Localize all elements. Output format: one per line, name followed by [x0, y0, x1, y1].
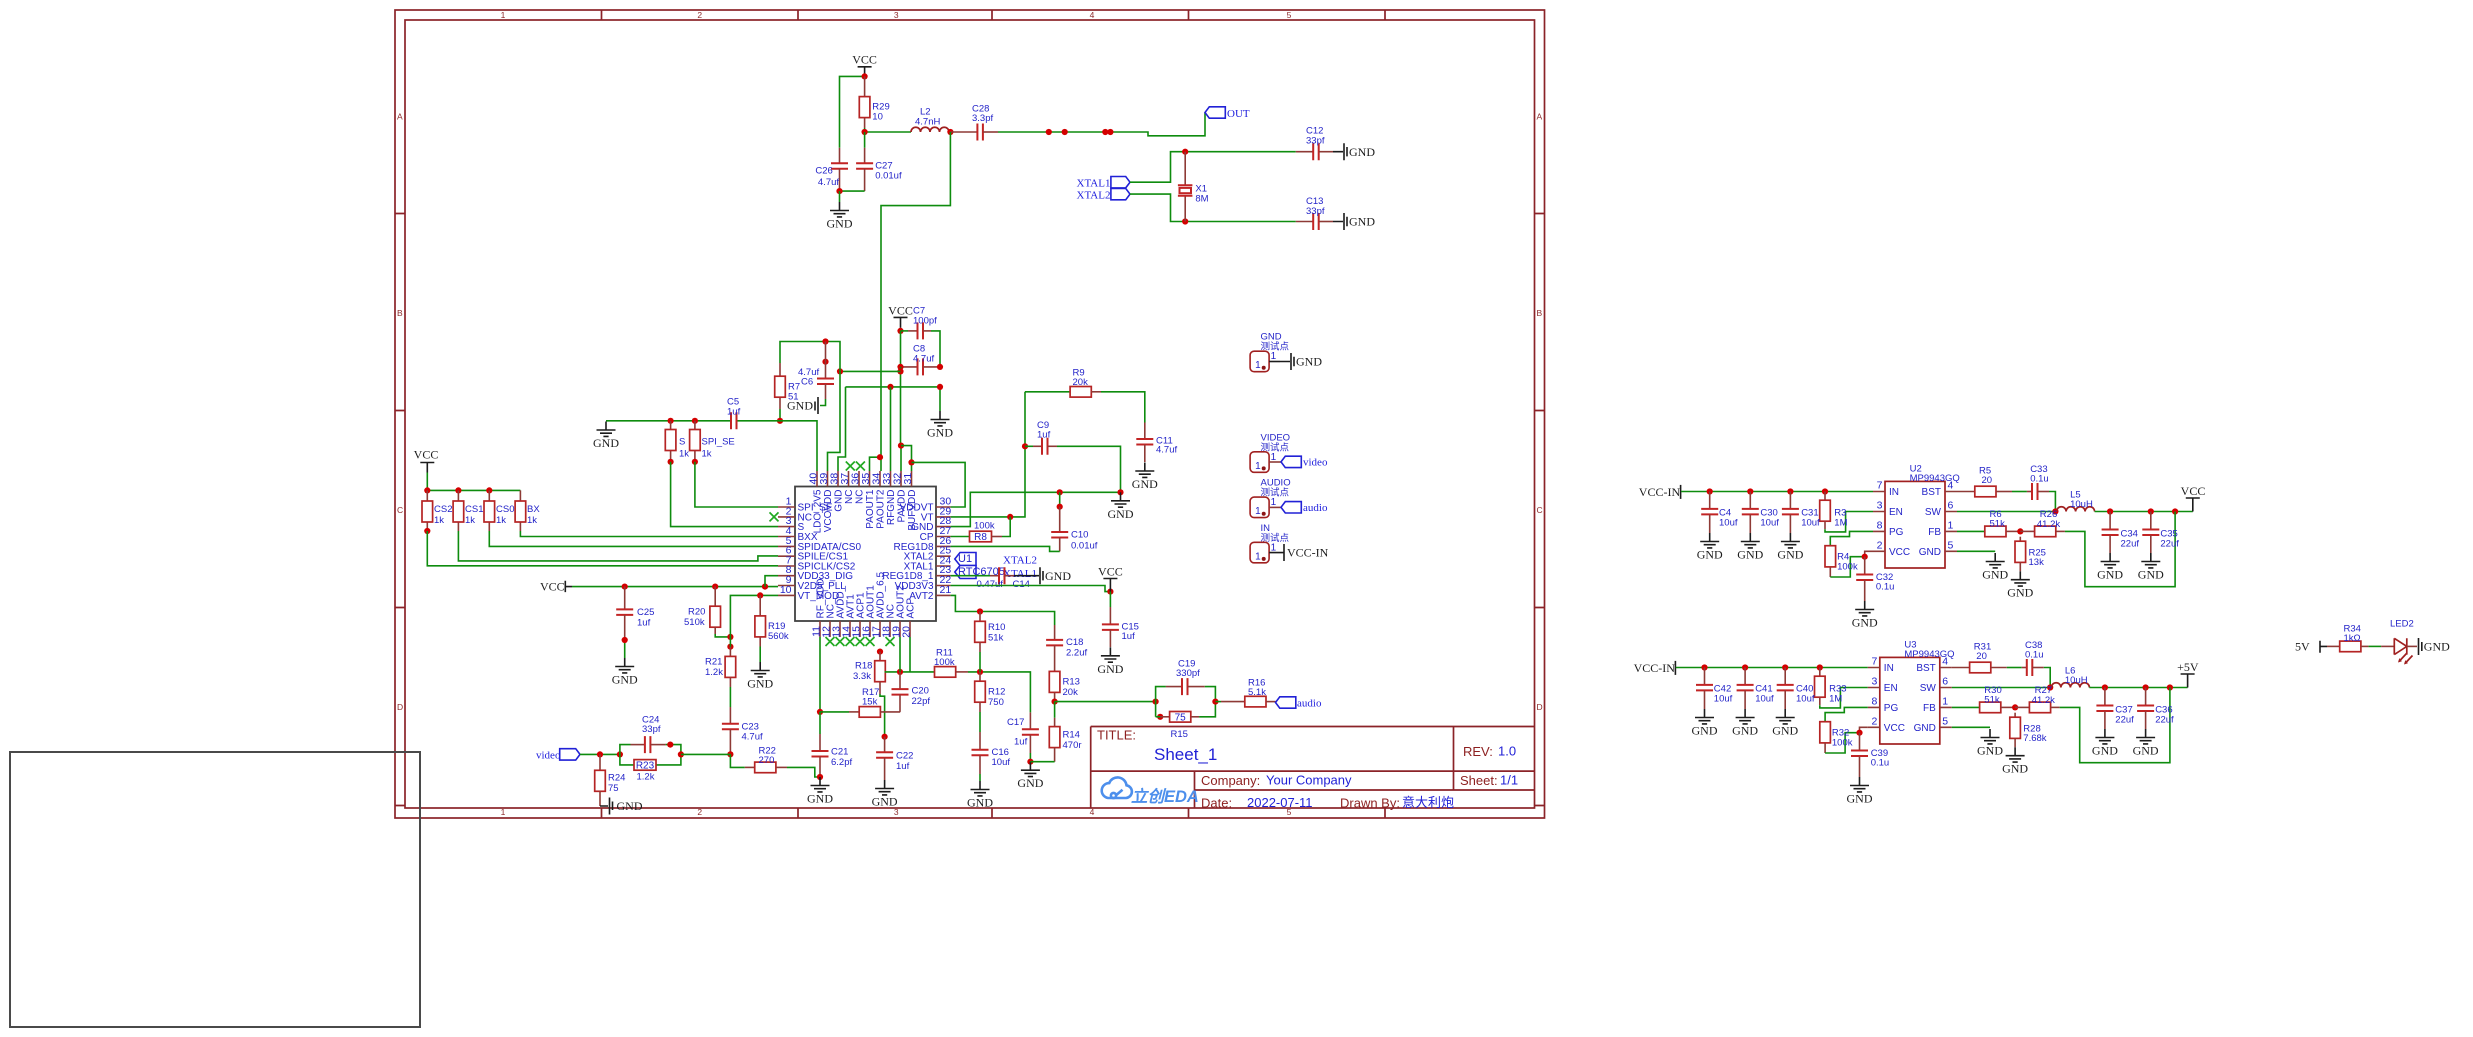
svg-text:U1: U1	[958, 553, 972, 565]
wire CS2 to pin7	[427, 531, 778, 566]
net flag audio	[1276, 697, 1296, 708]
resistor R19 560k	[759, 595, 761, 616]
svg-text:1.2k: 1.2k	[637, 772, 655, 783]
svg-text:100k: 100k	[934, 657, 955, 668]
wire C23 bottom to R22	[730, 754, 744, 767]
svg-text:1kΩ: 1kΩ	[2344, 633, 2361, 644]
svg-text:VCC: VCC	[1098, 565, 1123, 579]
svg-text:21: 21	[940, 584, 952, 596]
ground below C26	[827, 202, 853, 231]
svg-text:C21: C21	[831, 747, 848, 758]
svg-text:Your Company: Your Company	[1266, 773, 1352, 788]
svg-text:R18: R18	[855, 661, 872, 672]
svg-text:CS1: CS1	[465, 504, 483, 515]
svg-text:C26: C26	[815, 166, 832, 177]
wire C10 to pin26 REG1D8	[951, 546, 1060, 551]
svg-text:1k: 1k	[434, 515, 444, 526]
wire pin31 to pin30 loop	[912, 462, 966, 507]
svg-text:GND: GND	[617, 799, 643, 813]
resistor R10 51k	[979, 612, 981, 622]
wire BX to pin4	[520, 531, 778, 537]
svg-text:VCC: VCC	[852, 53, 877, 67]
wire SPI_SE to pin1	[695, 462, 778, 507]
svg-text:10uf: 10uf	[1755, 694, 1774, 705]
resistor CS2 1k	[426, 490, 428, 531]
inductor L2 4.7nH	[911, 127, 949, 132]
svg-text:1uf: 1uf	[727, 407, 741, 418]
resistor R16 5.1k	[1215, 701, 1221, 703]
node SPI_SE bottom dot	[692, 459, 698, 465]
node R10 top junction	[977, 608, 983, 614]
svg-text:41.2k: 41.2k	[2037, 519, 2060, 530]
wire C28 to OUT	[983, 131, 998, 133]
resistor R12 750	[979, 672, 981, 681]
node VCC C15 junction	[1107, 589, 1113, 595]
frame column ticks top	[602, 10, 1386, 20]
svg-text:U2: U2	[1910, 464, 1922, 475]
capacitor C16 10uf	[979, 732, 981, 750]
svg-text:1: 1	[501, 10, 506, 20]
capacitor C13 33pf	[1296, 221, 1313, 223]
frame row ticks right	[1535, 214, 1545, 806]
node C8 right dot	[937, 364, 943, 370]
no-connect X pin2	[770, 512, 779, 521]
svg-text:33pf: 33pf	[642, 724, 661, 735]
wire pin11 RF_VDD down	[819, 637, 821, 712]
node R17 junction	[817, 709, 823, 715]
svg-text:PAVDD: PAVDD	[897, 490, 908, 523]
svg-text:ACP: ACP	[906, 598, 917, 619]
ground above chip right	[927, 411, 953, 440]
ground below C16	[967, 781, 993, 810]
node R13/R14 junction	[1052, 699, 1058, 705]
capacitor C24 33pf	[631, 744, 645, 746]
svg-text:1: 1	[501, 807, 506, 817]
svg-text:B: B	[1537, 308, 1543, 318]
svg-text:SPI_SE: SPI_SE	[702, 437, 735, 448]
svg-text:C25: C25	[637, 607, 654, 618]
ground below C25	[612, 658, 638, 687]
node gnd rail end junction	[1117, 489, 1123, 495]
sheet frame outer border	[395, 10, 1545, 818]
node C6 top dot	[822, 338, 828, 344]
wire pin39 VCOVDD up to VCC rail	[828, 371, 841, 471]
node C19 box right junction	[1212, 699, 1218, 705]
parallel block C19/R15 wires	[1156, 687, 1216, 717]
U1 top pin stubs 40-31	[817, 471, 912, 487]
svg-text:LDO_2V5: LDO_2V5	[813, 489, 824, 533]
net flag audio (test point)	[1281, 502, 1301, 513]
svg-text:R8: R8	[974, 532, 987, 543]
svg-text:2: 2	[697, 10, 702, 20]
wire C25 to ground	[624, 640, 626, 658]
svg-text:1k: 1k	[702, 449, 712, 460]
svg-text:1uf: 1uf	[1122, 631, 1136, 642]
svg-text:10uf: 10uf	[992, 757, 1011, 768]
svg-text:51k: 51k	[1990, 519, 2006, 530]
wire pin21 AVT2 to C18 rail	[951, 595, 1055, 625]
no-connect X pin37	[846, 462, 855, 471]
net flag XTAL2 at pin25	[955, 553, 976, 566]
wire R21 to C23	[729, 677, 731, 687]
svg-text:100pf: 100pf	[913, 316, 937, 327]
U1 right pin stubs 30-21	[936, 507, 951, 595]
svg-text:0.1u: 0.1u	[1871, 758, 1890, 769]
ground right of C12	[1319, 151, 1333, 153]
svg-text:NC: NC	[855, 490, 866, 504]
resistor R34 1k	[2327, 645, 2340, 647]
svg-text:10uf: 10uf	[1801, 518, 1820, 529]
node R20 junction	[712, 584, 718, 590]
no-connect X pins 12-16,18	[826, 637, 835, 646]
svg-text:Drawn By:: Drawn By:	[1340, 796, 1400, 811]
resistor R7 51	[779, 363, 781, 409]
node L2 right junction	[947, 129, 953, 135]
svg-text:C18: C18	[1066, 637, 1083, 648]
node X1 bottom junction	[1182, 218, 1188, 224]
capacitor C11 4.7uf	[1144, 423, 1146, 440]
svg-text:1uf: 1uf	[896, 761, 910, 772]
svg-text:3.3pf: 3.3pf	[972, 113, 993, 124]
wire pin20 down	[909, 637, 911, 672]
svg-text:S: S	[679, 437, 685, 448]
wire R34 to LED2	[2369, 645, 2382, 647]
wire R8 to VT	[992, 536, 1003, 538]
svg-text:R13: R13	[1063, 677, 1080, 688]
svg-text:C: C	[397, 505, 403, 515]
wire XTAL1 to crystal top rail	[1130, 152, 1296, 183]
svg-text:RFGND: RFGND	[886, 490, 897, 526]
svg-text:4.7uf: 4.7uf	[798, 367, 819, 378]
svg-text:5: 5	[1287, 10, 1292, 20]
parallel block C24/R23 wires	[620, 745, 681, 765]
svg-text:TITLE:: TITLE:	[1097, 728, 1136, 743]
svg-text:3.3k: 3.3k	[853, 671, 871, 682]
svg-text:VCC: VCC	[540, 580, 565, 594]
svg-text:1k: 1k	[679, 449, 689, 460]
svg-text:VCC: VCC	[888, 304, 913, 318]
svg-text:10uH: 10uH	[2065, 675, 2088, 686]
node branch dot	[837, 368, 843, 374]
capacitor C6 4.7uf	[825, 342, 827, 379]
node R7 bottom dot	[777, 418, 783, 424]
svg-text:33pf: 33pf	[1306, 206, 1325, 217]
capacitor C17 1uf	[1029, 712, 1031, 729]
node CS2 bottom dot	[424, 528, 430, 534]
resistor R15 75	[1160, 716, 1169, 718]
svg-text:GND: GND	[834, 490, 845, 512]
resistor R18 3.3k	[879, 652, 881, 661]
svg-text:PAOUT2: PAOUT2	[876, 489, 887, 529]
svg-text:VCOVDD: VCOVDD	[823, 490, 834, 533]
wire C6 to side ground	[820, 399, 826, 406]
resistor R29	[864, 76, 866, 128]
node C23 bottom junction	[727, 751, 733, 757]
svg-text:4.7nH: 4.7nH	[915, 117, 940, 128]
node C22 top junction	[882, 734, 888, 740]
title block outline	[1091, 727, 1535, 809]
wire R11 rail	[885, 671, 935, 673]
wire L2 to C28	[950, 131, 977, 133]
resistor R13 20k	[1049, 671, 1060, 692]
svg-text:立创EDA: 立创EDA	[1131, 787, 1199, 806]
svg-text:1k: 1k	[527, 515, 537, 526]
wire box to C23 bottom	[681, 753, 731, 755]
svg-text:20k: 20k	[1063, 687, 1079, 698]
wire R14 bottom to C17 gnd node	[1030, 761, 1054, 763]
wire pin33 RFGND up	[890, 387, 892, 471]
capacitor C27 0.01uf	[864, 132, 866, 148]
wire pin38 GND to gnd rail	[838, 387, 846, 471]
svg-text:10uf: 10uf	[1719, 518, 1738, 529]
resistor R20 510k	[714, 587, 716, 607]
svg-text:15k: 15k	[862, 697, 878, 708]
wire R7 bottom to C5 rail	[779, 409, 781, 421]
svg-text:22uf: 22uf	[2155, 714, 2174, 725]
svg-text:4: 4	[1090, 807, 1095, 817]
capacitor C28 3.3pf	[977, 124, 983, 141]
buck converter U2 subcircuit	[1639, 473, 2200, 630]
wire VCC rail down to pin 32	[900, 367, 902, 446]
svg-text:0.1u: 0.1u	[1876, 582, 1895, 593]
wire pin31 tie	[901, 446, 912, 471]
svg-text:1k: 1k	[465, 515, 475, 526]
svg-text:330pf: 330pf	[1176, 668, 1200, 679]
svg-text:Company:: Company:	[1201, 773, 1260, 788]
svg-text:OUT: OUT	[1227, 108, 1250, 120]
resistor R21 1.2k	[729, 647, 731, 657]
node pin32 VCC junction	[897, 368, 903, 374]
svg-text:0.1u: 0.1u	[2030, 474, 2049, 485]
wire pin10 VT_MOD	[730, 595, 778, 646]
capacitor C5 1uf	[731, 412, 737, 429]
svg-text:270: 270	[759, 755, 775, 766]
resistor SPI_SE 1k	[692, 418, 698, 424]
svg-text:C10: C10	[1071, 530, 1088, 541]
svg-text:3: 3	[894, 807, 899, 817]
svg-text:R10: R10	[988, 622, 1005, 633]
svg-text:750: 750	[988, 697, 1004, 708]
svg-text:3: 3	[894, 10, 899, 20]
wire R18 bottom to R17 right	[879, 682, 881, 694]
ground below C15	[1097, 647, 1123, 676]
node C19 box left junction	[1153, 699, 1159, 705]
wire XTAL2 to crystal bottom rail	[1130, 194, 1296, 221]
ground below C22	[872, 780, 898, 809]
svg-text:1uf: 1uf	[1014, 737, 1028, 748]
capacitor C8 4.7uf	[900, 331, 902, 367]
svg-text:D: D	[1537, 702, 1543, 712]
wire CS0 to pin5	[489, 531, 778, 546]
capacitor C18 2.2uf	[1054, 625, 1056, 640]
svg-text:XTAL2: XTAL2	[1003, 555, 1037, 567]
node R29 bottom junction	[862, 129, 868, 135]
resistor R9 20k	[1025, 391, 1070, 393]
svg-text:2: 2	[697, 807, 702, 817]
svg-text:R15: R15	[1171, 729, 1188, 740]
wire pin29 VT	[951, 392, 1025, 517]
svg-text:audio: audio	[1303, 502, 1328, 514]
svg-text:R20: R20	[688, 607, 705, 618]
svg-text:4.7uf: 4.7uf	[913, 354, 934, 365]
svg-text:CS2: CS2	[434, 504, 452, 515]
svg-text:R21: R21	[705, 657, 722, 668]
resistor R23 1.2k	[634, 760, 656, 771]
node VCC junction	[862, 73, 868, 79]
node pin8 junction	[762, 584, 768, 590]
svg-text:510k: 510k	[684, 617, 705, 628]
svg-text:REV:: REV:	[1463, 744, 1493, 759]
wire to ground	[839, 191, 841, 202]
wire C5 rail	[606, 421, 817, 471]
svg-text:Sheet:: Sheet:	[1460, 773, 1498, 788]
wire pin35 to pin34 tie	[870, 457, 881, 471]
ground (bar style) left of C6	[815, 397, 818, 414]
node S bottom dot	[668, 459, 674, 465]
svg-text:audio: audio	[1297, 698, 1322, 710]
resistor R24 75	[599, 754, 601, 770]
LED LED2	[2394, 638, 2407, 654]
node C10 junction	[1057, 489, 1063, 495]
node R15 left junction	[1157, 714, 1163, 720]
capacitor C22 1uf	[884, 737, 886, 753]
node C8 left dot	[897, 364, 903, 370]
node C24 box right junction	[678, 751, 684, 757]
svg-text:C: C	[1537, 505, 1543, 515]
ground left of C5 rail	[593, 422, 619, 451]
svg-text:20: 20	[901, 626, 913, 638]
svg-text:22pf: 22pf	[912, 696, 931, 707]
node C24 right dot	[667, 742, 673, 748]
node pin19/C20 junction	[897, 669, 903, 675]
svg-text:6.2pf: 6.2pf	[831, 757, 852, 768]
svg-text:A: A	[1537, 112, 1543, 122]
wire CS top rail	[427, 489, 520, 491]
svg-text:100k: 100k	[974, 521, 995, 532]
node C17/R14 junction	[1027, 759, 1033, 765]
EDA logo	[1102, 777, 1132, 798]
crystal X1 8M	[1184, 152, 1186, 222]
svg-text:560k: 560k	[768, 631, 789, 642]
node dots on OUT rail	[1046, 129, 1052, 135]
node C24 box left junction	[617, 751, 623, 757]
gray board outline rectangle bottom-left	[10, 752, 420, 1027]
node R24 junction	[597, 751, 603, 757]
svg-text:100k: 100k	[1837, 562, 1858, 573]
wire C17 to gnd node	[1029, 753, 1031, 762]
svg-text:75: 75	[608, 783, 619, 794]
node R19 junction	[757, 592, 763, 598]
ground below C21	[807, 777, 833, 806]
svg-text:VCC: VCC	[414, 448, 439, 462]
svg-text:C14: C14	[1013, 579, 1030, 590]
svg-text:51: 51	[788, 392, 799, 403]
resistor CS1 1k	[457, 490, 459, 531]
svg-text:8M: 8M	[1195, 194, 1208, 205]
svg-text:4.7uf: 4.7uf	[1156, 445, 1177, 456]
svg-text:20k: 20k	[1073, 377, 1089, 388]
wire junction to R17	[820, 711, 849, 713]
resistor R22 270	[745, 766, 755, 768]
svg-text:Date:: Date:	[1201, 796, 1232, 811]
capacitor C21 6.2pf	[819, 712, 821, 734]
svg-text:31: 31	[902, 473, 914, 485]
node R18 top junction	[877, 649, 883, 655]
frame column ticks bottom	[602, 808, 1386, 818]
wire pin22 VDD3V3 to VCC	[951, 586, 1111, 592]
node pin31 junction	[908, 459, 914, 465]
svg-text:22uf: 22uf	[2121, 538, 2140, 549]
capacitor C12 33pf	[1296, 151, 1313, 153]
sheet frame inner border	[405, 20, 1535, 808]
svg-text:1k: 1k	[496, 515, 506, 526]
svg-text:0.01uf: 0.01uf	[1071, 541, 1098, 552]
capacitor C19 330pf	[1166, 686, 1182, 688]
svg-text:0.47uf: 0.47uf	[977, 579, 1004, 590]
svg-text:20: 20	[1976, 651, 1987, 662]
wire R29 to L2	[865, 128, 911, 132]
node pin33 gnd junction	[887, 384, 893, 390]
node R10/R12 junction	[977, 669, 983, 675]
svg-text:0.01uf: 0.01uf	[875, 171, 902, 182]
resistor CS0 1k	[488, 490, 490, 531]
resistor S 1k	[668, 418, 674, 424]
ground below C11	[1132, 463, 1158, 492]
svg-text:1.2k: 1.2k	[705, 667, 723, 678]
capacitor C10 0.01uf	[1059, 492, 1061, 506]
svg-text:10uf: 10uf	[1796, 694, 1815, 705]
svg-text:22uf: 22uf	[2160, 538, 2179, 549]
svg-text:意大利炮: 意大利炮	[1402, 795, 1454, 810]
svg-text:LED2: LED2	[2390, 619, 2414, 630]
svg-text:10uf: 10uf	[1760, 518, 1779, 529]
svg-text:4.7uf: 4.7uf	[742, 732, 763, 743]
resistor R17 15k	[849, 711, 859, 713]
svg-text:10uf: 10uf	[1714, 694, 1733, 705]
wire R22 to C21 bottom node	[787, 767, 820, 777]
ground right of C13	[1319, 221, 1333, 223]
svg-text:C20: C20	[912, 686, 929, 697]
svg-text:VCC-IN: VCC-IN	[1287, 545, 1329, 559]
capacitor C7 100pf	[901, 330, 909, 332]
svg-text:C22: C22	[896, 751, 913, 762]
wire CS1 to pin6	[458, 531, 778, 561]
ground below C17	[1017, 762, 1043, 791]
LED arrows	[2399, 654, 2413, 664]
svg-text:470r: 470r	[1063, 740, 1082, 751]
ground below gnd rail	[1108, 492, 1134, 521]
svg-text:75: 75	[1175, 713, 1187, 724]
node pin32/31 tie dot	[898, 443, 904, 449]
capacitor C26 4.7uf	[839, 148, 841, 163]
wire gnd rail above chip	[846, 387, 941, 411]
resistor R14 470r	[1054, 702, 1056, 718]
net flag XTAL1 at pin24	[955, 566, 976, 579]
U1 bottom pin stubs 11-20	[820, 621, 910, 637]
svg-text:0.1u: 0.1u	[2025, 650, 2044, 661]
wire branch up and to R7	[780, 342, 840, 372]
wire LED2 to ground	[2407, 645, 2417, 647]
svg-text:A: A	[397, 112, 403, 122]
capacitor C14 0.47uf at pin23	[951, 575, 990, 577]
svg-text:1uf: 1uf	[1037, 430, 1051, 441]
wire pin8 VDD33_DIG down to VCC rail	[765, 576, 778, 587]
svg-text:5.1k: 5.1k	[1248, 687, 1266, 698]
wire R24 to side ground	[599, 791, 601, 806]
resistor R8 100k	[951, 536, 970, 538]
svg-text:B: B	[397, 308, 403, 318]
svg-text:Sheet_1: Sheet_1	[1154, 745, 1217, 764]
